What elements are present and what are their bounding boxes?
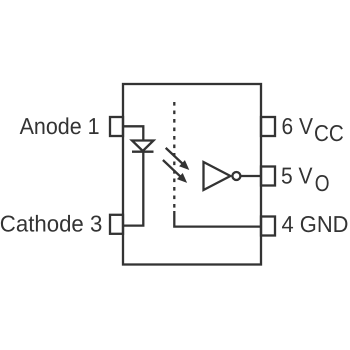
inverter output bubble	[232, 172, 240, 180]
light arrow 2 head	[177, 173, 187, 183]
svg-text:Cathode 3: Cathode 3	[0, 211, 102, 237]
svg-text:Anode 1: Anode 1	[20, 113, 100, 139]
pin 6 box (Vcc)	[261, 117, 275, 136]
pin 4 box (GND)	[261, 217, 275, 236]
pin 1 box (anode)	[110, 117, 123, 136]
svg-text:6 V: 6 V	[282, 113, 314, 139]
light arrow 1 head	[179, 160, 189, 170]
svg-text:CC: CC	[314, 120, 344, 146]
light arrow 2 shaft	[163, 160, 183, 178]
LED D1 triangle	[132, 141, 154, 152]
pin 3 box (cathode)	[110, 215, 123, 234]
svg-text:O: O	[315, 170, 330, 196]
pin 5 box (Vo)	[261, 167, 275, 186]
dashed isolation line	[173, 102, 175, 211]
svg-text:5 V: 5 V	[281, 163, 313, 189]
wire output: bubble to pin 5	[240, 175, 261, 177]
wire cathode: LED to pin3	[123, 152, 143, 226]
optocoupler body outline U1	[123, 84, 261, 265]
inverter U1B triangle	[204, 162, 231, 190]
LED D1 cathode bar	[132, 151, 154, 153]
light arrow 1 shaft	[166, 148, 185, 166]
wire gnd: dashed line foot to pin 4	[174, 211, 261, 227]
wire anode: pin1 to LED anode	[123, 126, 143, 140]
svg-text:4 GND: 4 GND	[282, 211, 349, 237]
